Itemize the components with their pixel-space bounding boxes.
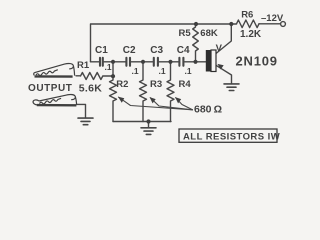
svg-text:C3: C3	[150, 45, 163, 56]
svg-text:.1: .1	[159, 66, 166, 76]
svg-text:ALL RESISTORS IW: ALL RESISTORS IW	[183, 131, 280, 142]
svg-text:R6: R6	[241, 10, 253, 21]
svg-text:OUTPUT: OUTPUT	[28, 83, 72, 94]
svg-text:R3: R3	[150, 79, 162, 90]
svg-text:V: V	[216, 43, 223, 54]
svg-text:R2: R2	[116, 79, 128, 90]
svg-text:1.2K: 1.2K	[240, 29, 262, 40]
svg-text:–12V: –12V	[261, 13, 284, 24]
svg-text:.1: .1	[132, 66, 139, 76]
svg-text:680 Ω: 680 Ω	[194, 104, 222, 116]
svg-text:C2: C2	[123, 45, 136, 56]
svg-text:C1: C1	[95, 45, 108, 56]
svg-text:R4: R4	[179, 79, 192, 90]
svg-text:.1: .1	[105, 62, 112, 72]
svg-text:68K: 68K	[200, 28, 218, 39]
svg-text:R5: R5	[179, 28, 192, 39]
svg-text:5.6K: 5.6K	[79, 82, 102, 94]
svg-text:C4: C4	[177, 45, 190, 56]
svg-text:2N109: 2N109	[236, 53, 278, 68]
svg-text:R1: R1	[77, 60, 90, 71]
svg-text:.1: .1	[185, 66, 192, 76]
